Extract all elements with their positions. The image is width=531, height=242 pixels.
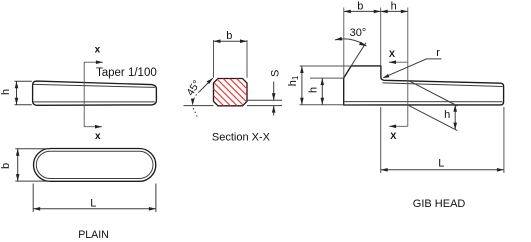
svg-text:X: X [389, 49, 396, 59]
30 degree slope extension line [351, 43, 366, 66]
svg-text:30°: 30° [350, 27, 367, 39]
dimension b and h extension lines (gib head top) [344, 8, 408, 127]
fillet radius r leader (gib head) [384, 59, 442, 78]
svg-text:S: S [270, 70, 282, 77]
svg-text:PLAIN: PLAIN [78, 229, 109, 241]
gib head key top chamfer line [383, 83, 503, 87]
svg-text:b: b [0, 163, 12, 169]
svg-text:x: x [95, 131, 101, 142]
plain key plan view inner chamfer outline [36, 151, 153, 178]
svg-text:L: L [90, 197, 96, 209]
plain key plan view outer outline [34, 149, 156, 182]
oblique extension lines for h at section (gib head right) [408, 80, 457, 106]
section arrow top (plain key) [96, 60, 103, 64]
svg-text:Section X-X: Section X-X [212, 131, 271, 143]
dimension h line (gib head right) [454, 105, 456, 130]
svg-text:X: X [390, 131, 397, 141]
svg-text:45°: 45° [184, 78, 203, 98]
svg-text:h1: h1 [287, 75, 300, 86]
svg-text:GIB HEAD: GIB HEAD [413, 198, 466, 210]
svg-text:h: h [307, 87, 319, 93]
svg-text:b: b [226, 30, 232, 42]
datum line left of section [184, 105, 214, 107]
svg-text:Taper 1/100: Taper 1/100 [96, 67, 157, 79]
section arrow bottom (plain key) [95, 125, 102, 129]
section X-X red hatching [189, 78, 272, 107]
section arrow top (gib head) [389, 61, 408, 63]
dimension h line (gib head top) [381, 10, 408, 12]
section plane line x-x (plain key) [84, 62, 103, 127]
section arrow bottom (gib head) [389, 125, 408, 127]
dimension h (gib head left) [310, 78, 344, 105]
dimension h1 (gib head left) [300, 66, 352, 105]
datum / extension lines right of section [247, 105, 282, 107]
svg-text:h: h [444, 109, 450, 121]
svg-text:L: L [438, 158, 444, 170]
svg-text:b: b [357, 1, 363, 13]
dimension L (gib head) [381, 107, 504, 173]
dimension b line (gib head top) [344, 10, 381, 12]
dimension S (section X-X) [273, 82, 275, 116]
dimension h (plain key side view) [14, 81, 31, 105]
plain key side view bottom chamfer line [34, 101, 155, 103]
gib head key body outline [344, 66, 504, 105]
svg-text:h: h [0, 89, 12, 95]
plain key side view top chamfer line [34, 84, 155, 87]
30 degree angular dimension arc [335, 39, 367, 46]
gib head key bottom chamfer line [344, 101, 502, 103]
dimension b (plain key plan view) [15, 149, 50, 181]
section X-X square outline [214, 79, 248, 106]
svg-text:h: h [391, 1, 397, 13]
45 degree chamfer leader (section X-X) [200, 78, 213, 91]
dimension L (plain key plan view) [33, 184, 156, 213]
dimension b (section X-X) [214, 40, 248, 78]
plain key side view body outline [33, 81, 157, 105]
svg-text:x: x [95, 45, 101, 56]
svg-text:r: r [436, 47, 440, 59]
